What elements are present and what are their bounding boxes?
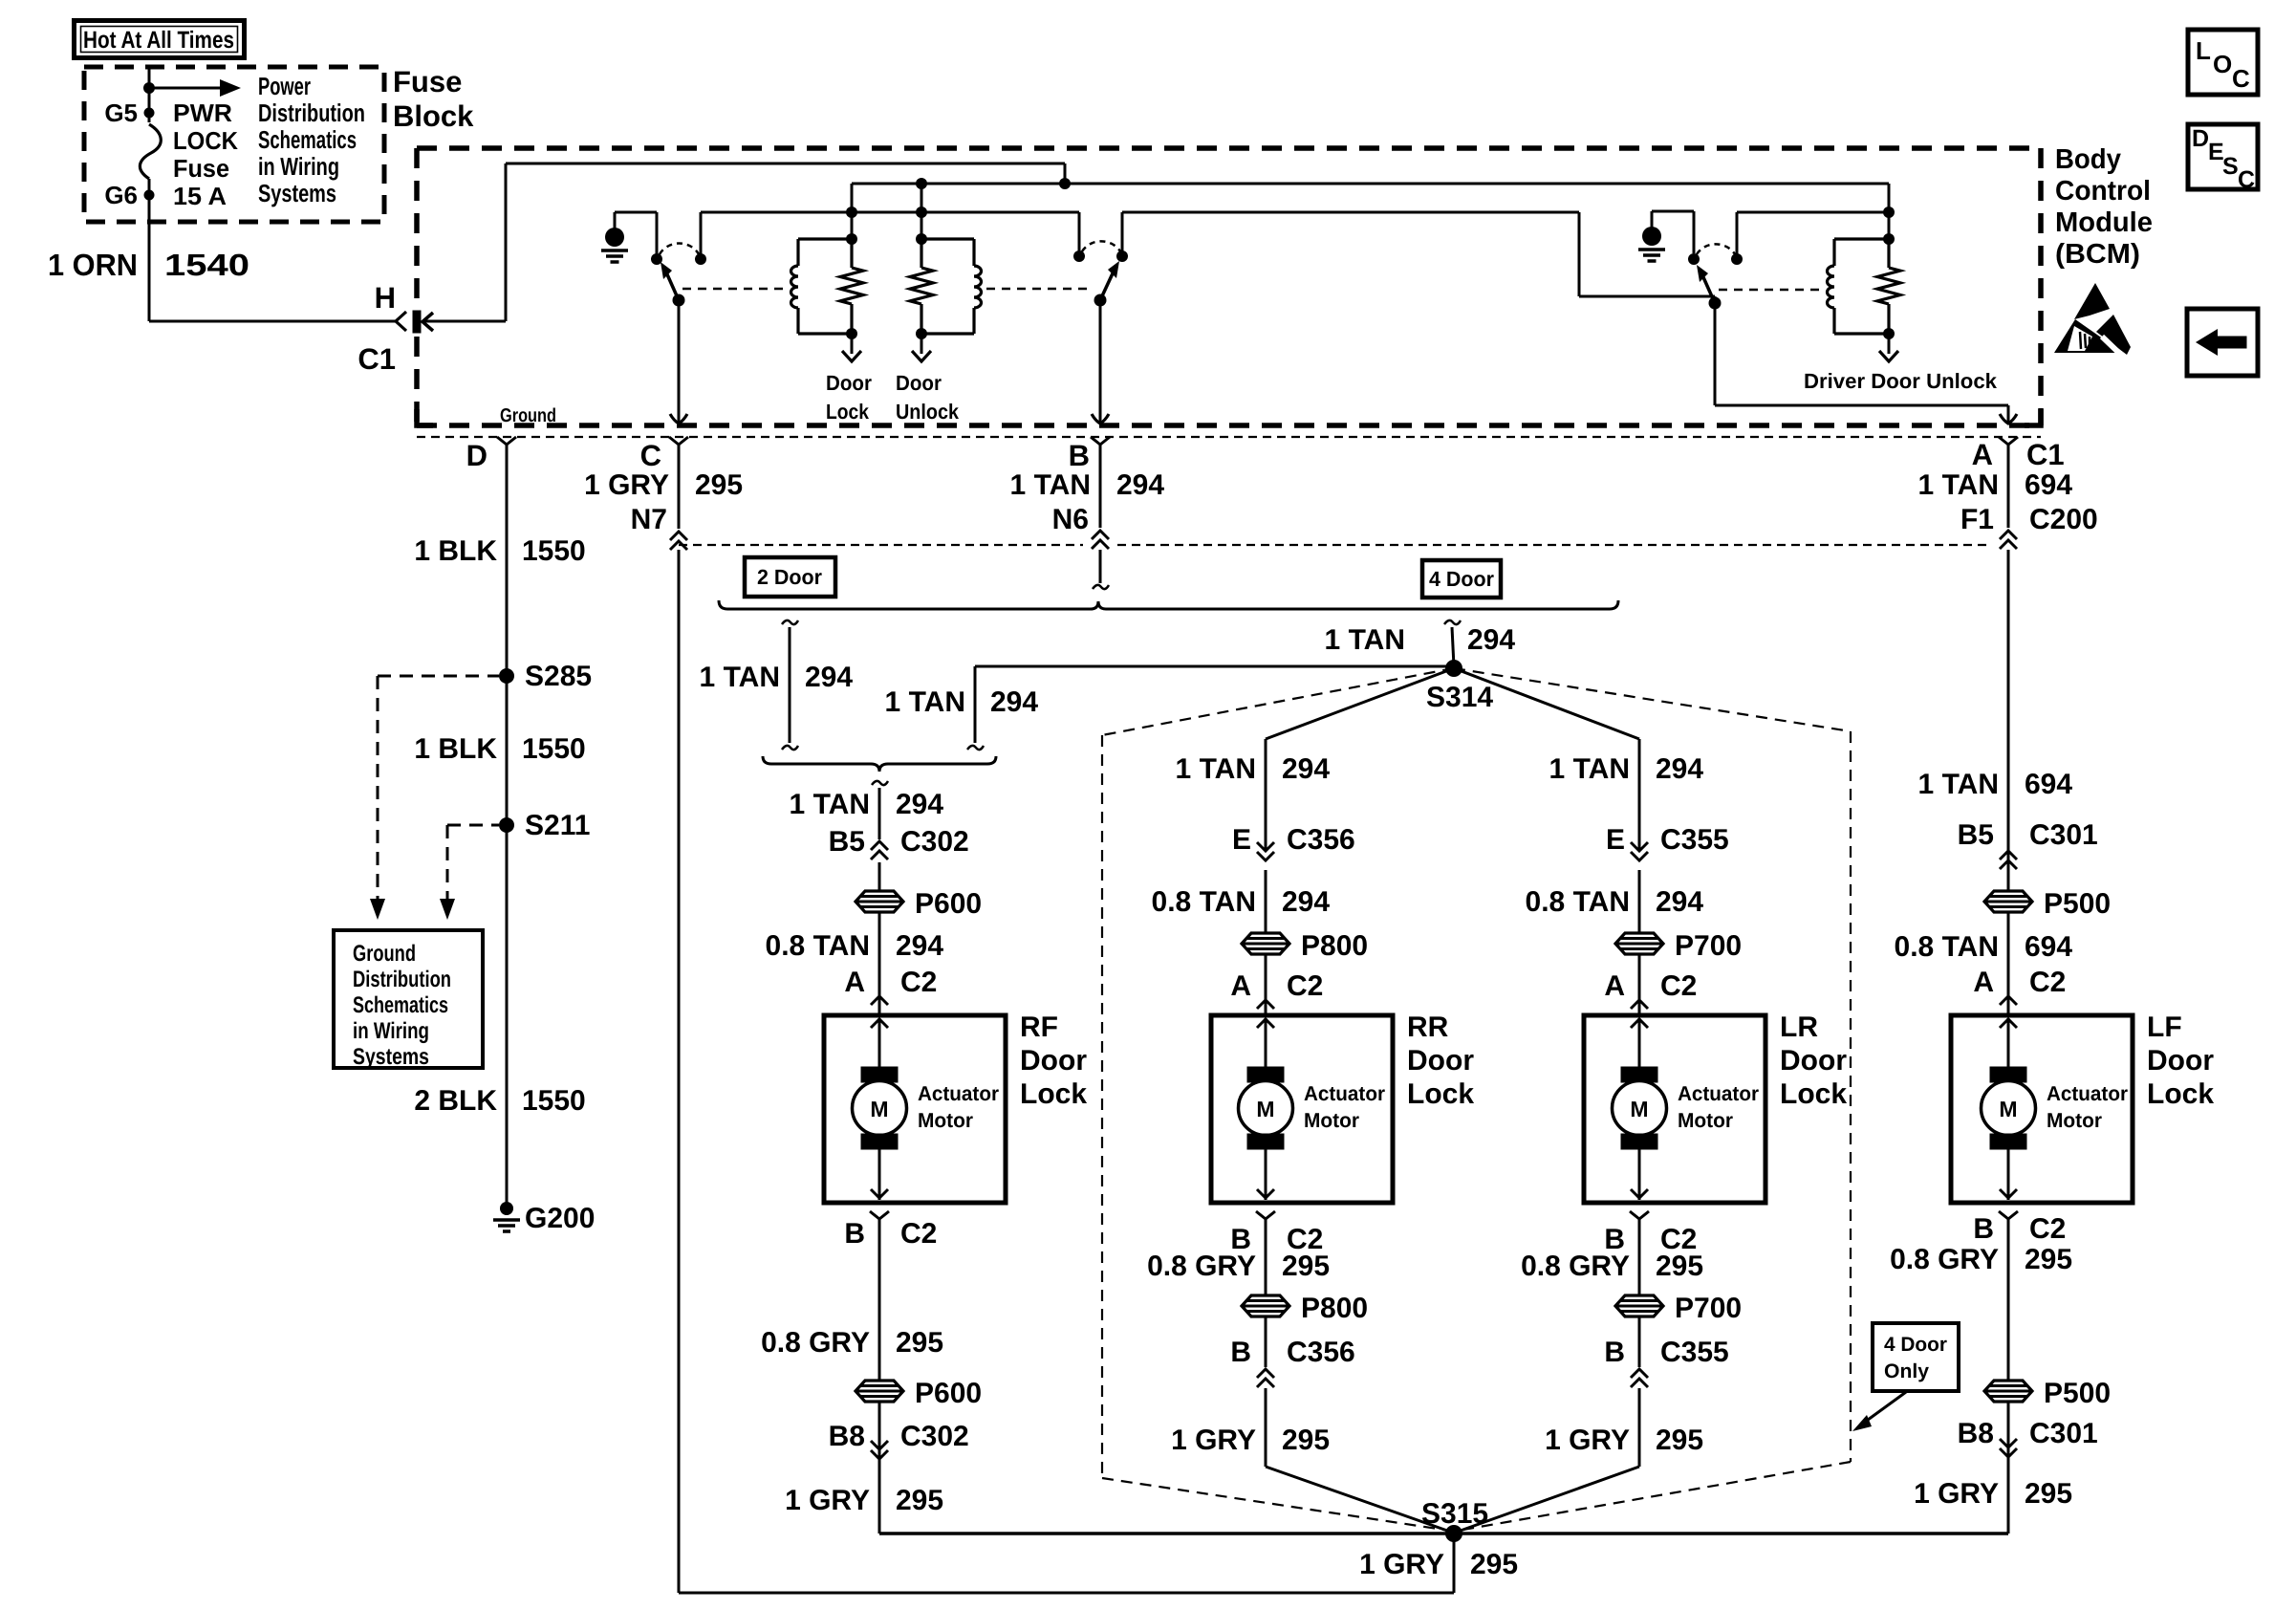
wire D down to G200 <box>506 445 509 1215</box>
svg-text:B5: B5 <box>829 826 865 858</box>
svg-text:295: 295 <box>1470 1549 1518 1580</box>
wire bus 2 <box>852 183 1889 185</box>
arrow into connector B <box>1092 414 1109 424</box>
svg-text:Motor: Motor <box>918 1109 974 1132</box>
connector pin A fork <box>1999 437 2018 445</box>
splice S211 <box>499 817 514 833</box>
wire C down <box>678 445 681 529</box>
svg-text:C: C <box>640 439 661 472</box>
svg-text:Power: Power <box>258 72 311 100</box>
connector C200 chevrons (C) <box>670 532 687 550</box>
svg-text:Actuator: Actuator <box>2047 1082 2129 1105</box>
middle switch contact A <box>1073 250 1085 262</box>
svg-text:H: H <box>375 281 396 315</box>
door lock coil <box>791 266 799 308</box>
svg-text:Lock: Lock <box>1020 1078 1087 1110</box>
svg-text:P500: P500 <box>2044 1378 2111 1409</box>
ground symbol (left, lock/unlock relay) <box>614 212 617 229</box>
svg-text:1 GRY: 1 GRY <box>584 469 669 501</box>
right switch contact B <box>1731 253 1743 265</box>
svg-text:D: D <box>466 439 487 472</box>
svg-text:Ground: Ground <box>353 941 416 967</box>
svg-text:295: 295 <box>2025 1478 2072 1510</box>
svg-text:Actuator: Actuator <box>1678 1082 1760 1105</box>
svg-text:C: C <box>2232 64 2250 93</box>
harness dashed line C1 connector row <box>417 436 2041 438</box>
connector C302 chevrons (RF top) <box>871 841 888 859</box>
svg-text:in Wiring: in Wiring <box>353 1018 429 1044</box>
svg-text:A: A <box>1972 438 1993 471</box>
svg-text:O: O <box>2213 50 2232 78</box>
svg-text:294: 294 <box>1282 886 1330 918</box>
svg-text:295: 295 <box>896 1327 943 1359</box>
motor terminal bottom (LF) <box>1990 1134 2026 1149</box>
svg-text:1 TAN: 1 TAN <box>700 662 780 693</box>
junction wire2 <box>916 178 927 189</box>
svg-text:1 TAN: 1 TAN <box>1918 769 1999 800</box>
svg-text:M: M <box>1999 1097 2017 1121</box>
RF branch wire from brace <box>872 781 888 785</box>
motor terminal top (RF) <box>861 1067 898 1082</box>
svg-text:4 Door: 4 Door <box>1429 567 1494 591</box>
splice S314 <box>1445 660 1462 677</box>
S315 drop to return bus <box>1453 1534 1456 1593</box>
svg-text:C356: C356 <box>1287 824 1355 856</box>
svg-text:Systems: Systems <box>353 1044 429 1070</box>
svg-text:Ground: Ground <box>500 405 556 426</box>
svg-text:B8: B8 <box>829 1421 865 1452</box>
svg-text:694: 694 <box>2025 769 2072 800</box>
connector C2 chevron (RR top) <box>1257 1000 1274 1009</box>
wire A down <box>2007 445 2010 528</box>
arrow into connector A <box>2000 414 2017 424</box>
svg-text:C200: C200 <box>2029 504 2098 535</box>
svg-text:0.8 GRY: 0.8 GRY <box>1521 1251 1630 1282</box>
svg-text:S315: S315 <box>1421 1498 1488 1530</box>
right switch feed from wire2 <box>1888 184 1891 239</box>
svg-text:Distribution: Distribution <box>258 98 365 127</box>
connector C355 chevrons (LR top) <box>1631 842 1648 860</box>
door lock resistor <box>840 268 863 304</box>
svg-text:Only: Only <box>1884 1360 1929 1382</box>
svg-text:G6: G6 <box>104 181 138 209</box>
driver unlock resistor <box>1877 268 1900 304</box>
ESD slash white <box>2102 337 2126 359</box>
junction wire3/unlock feed <box>916 207 927 218</box>
svg-text:C2: C2 <box>1287 970 1323 1002</box>
BCM dashed border right <box>2038 148 2044 425</box>
svg-text:Fuse: Fuse <box>393 65 462 98</box>
wire G6 down to C1 <box>148 179 151 321</box>
svg-text:LF: LF <box>2147 1012 2182 1043</box>
ESD hand cutout <box>2068 326 2092 351</box>
middle switch pivot <box>1094 294 1107 307</box>
svg-text:Actuator: Actuator <box>918 1082 1000 1105</box>
connector C200 chevrons (B) <box>1092 531 1109 549</box>
svg-text:1550: 1550 <box>522 1085 586 1117</box>
fuse block dashed box <box>84 67 384 222</box>
arrow into connector C <box>670 414 687 424</box>
svg-text:1 GRY: 1 GRY <box>1545 1425 1630 1456</box>
left switch wire to contact A <box>615 211 657 214</box>
middle switch arm arrowhead <box>1108 261 1119 278</box>
LOC box <box>2188 30 2258 95</box>
ESD right triangle <box>2096 315 2131 355</box>
grommet P700 (bottom) <box>1615 1295 1663 1316</box>
motor M circle (LF) <box>1982 1081 2036 1136</box>
motor terminal bottom (RF) <box>861 1134 898 1149</box>
svg-text:LR: LR <box>1780 1012 1818 1043</box>
svg-text:Door: Door <box>1020 1045 1087 1077</box>
svg-text:694: 694 <box>2025 931 2072 963</box>
vertical feed door lock resistor <box>851 184 854 239</box>
svg-text:P600: P600 <box>915 1378 982 1409</box>
svg-text:A: A <box>844 967 865 998</box>
svg-text:Motor: Motor <box>2047 1109 2103 1132</box>
grommet P700 (top) <box>1615 933 1663 954</box>
arrow to Power Distribution Schematics <box>149 87 220 90</box>
vertical feed door unlock resistor <box>921 184 923 239</box>
svg-text:B: B <box>1973 1213 1994 1245</box>
wire right pivot to connector A <box>1714 303 1717 405</box>
connector C2 fork (RF bottom) <box>870 1211 889 1219</box>
motor terminal bottom (RR) <box>1247 1134 1284 1149</box>
connector C2 fork (LR bottom) <box>1630 1211 1649 1219</box>
svg-text:P500: P500 <box>2044 888 2111 920</box>
wire pivot to connector C <box>678 300 681 423</box>
svg-text:C301: C301 <box>2029 819 2098 851</box>
svg-text:B8: B8 <box>1958 1418 1994 1449</box>
svg-text:Systems: Systems <box>258 179 336 207</box>
4 Door Only box <box>1873 1323 1959 1391</box>
svg-text:1 GRY: 1 GRY <box>785 1485 870 1516</box>
motor M circle (LR) <box>1613 1081 1667 1136</box>
arrowhead S285 branch <box>370 899 385 920</box>
connector C2 fork (LF bottom) <box>1999 1211 2018 1219</box>
svg-text:15 A: 15 A <box>173 182 227 210</box>
RF door lock actuator <box>824 1015 1006 1203</box>
dashed branch from S211 <box>447 824 499 827</box>
svg-text:C2: C2 <box>900 967 937 998</box>
big brace under 4 door <box>719 600 1618 609</box>
svg-text:M: M <box>870 1097 888 1121</box>
driver unlock coil <box>1828 266 1834 308</box>
back arrow head <box>2196 329 2218 356</box>
small brace under 2-door stubs <box>763 756 996 772</box>
left switch pivot <box>673 294 685 307</box>
1 TAN 294 wire to S314 <box>967 746 984 750</box>
connector pin C fork <box>669 437 688 445</box>
BCM dashed border bottom <box>417 423 2041 428</box>
svg-text:P600: P600 <box>915 888 982 920</box>
dashed 4-door boundary right <box>1454 668 1851 731</box>
svg-text:M: M <box>1256 1097 1274 1121</box>
splice S285 <box>499 668 514 684</box>
svg-text:Distribution: Distribution <box>353 967 451 992</box>
svg-text:C2: C2 <box>1660 970 1697 1002</box>
grommet P800 (top) <box>1242 933 1289 954</box>
svg-text:P700: P700 <box>1675 1293 1742 1324</box>
svg-text:LOCK: LOCK <box>173 126 238 155</box>
svg-text:Lock: Lock <box>826 400 870 424</box>
svg-text:C302: C302 <box>900 1421 969 1452</box>
connector C2 fork (RR bottom) <box>1256 1211 1275 1219</box>
svg-text:(BCM): (BCM) <box>2055 239 2140 270</box>
svg-text:Driver Door Unlock: Driver Door Unlock <box>1804 369 1998 393</box>
svg-text:S285: S285 <box>525 661 592 692</box>
motor terminal top (RR) <box>1247 1067 1284 1082</box>
BCM dashed border top <box>417 145 2041 151</box>
svg-text:RR: RR <box>1407 1012 1449 1043</box>
svg-text:E: E <box>1232 824 1251 856</box>
svg-text:S: S <box>2222 153 2239 180</box>
door lock coil+resistor pair <box>798 237 852 240</box>
svg-text:C1: C1 <box>357 342 396 376</box>
right switch arm arrowhead <box>1697 265 1708 282</box>
svg-text:1 TAN: 1 TAN <box>885 686 965 718</box>
right switch arm <box>1703 277 1715 303</box>
Hot At All Times box <box>75 21 245 58</box>
svg-text:P700: P700 <box>1675 930 1742 962</box>
svg-text:Block: Block <box>393 99 474 133</box>
svg-text:M: M <box>1630 1097 1648 1121</box>
junction wire1/wire2 <box>1059 178 1071 189</box>
LF door lock actuator <box>1951 1015 2133 1203</box>
dashed branch from S285 <box>378 675 499 678</box>
connector C355 chevrons (LR bottom) <box>1631 1369 1648 1387</box>
connector C302 chevrons (RF bottom) <box>871 1441 888 1459</box>
svg-text:S211: S211 <box>525 810 590 841</box>
svg-text:1 BLK: 1 BLK <box>414 535 497 567</box>
middle switch contact B <box>1116 250 1128 262</box>
svg-text:C2: C2 <box>900 1218 937 1250</box>
grommet P500 (bottom) <box>1984 1381 2032 1402</box>
svg-text:C2: C2 <box>2029 967 2066 998</box>
connector C200 chevrons (A) <box>2000 531 2017 549</box>
svg-text:Door: Door <box>2147 1045 2214 1077</box>
svg-text:A: A <box>1604 970 1625 1002</box>
svg-text:295: 295 <box>1282 1425 1330 1456</box>
svg-text:Schematics: Schematics <box>353 992 448 1018</box>
svg-text:C1: C1 <box>2026 438 2065 471</box>
svg-text:Lock: Lock <box>1407 1078 1474 1110</box>
BCM border corner pieces <box>2025 409 2041 425</box>
svg-text:G5: G5 <box>104 98 138 127</box>
connector pin B fork <box>1091 437 1110 445</box>
svg-text:B: B <box>844 1218 865 1250</box>
svg-text:1550: 1550 <box>522 535 586 567</box>
second harness dashed line (C200) <box>679 544 1083 546</box>
svg-text:Lock: Lock <box>2147 1078 2214 1110</box>
svg-text:Hot At All Times: Hot At All Times <box>83 27 234 54</box>
svg-text:2 BLK: 2 BLK <box>414 1085 497 1117</box>
svg-text:A: A <box>1973 967 1994 998</box>
svg-text:1 TAN: 1 TAN <box>1176 753 1256 785</box>
middle switch arm <box>1100 273 1113 300</box>
connector C356 chevrons (RR bottom) <box>1257 1369 1274 1387</box>
grommet P600 (bottom) <box>856 1381 903 1402</box>
svg-text:295: 295 <box>2025 1244 2072 1275</box>
wire bus 3 right segment <box>1122 211 1579 214</box>
svg-text:295: 295 <box>695 469 743 501</box>
junction right contact feed <box>1883 207 1895 218</box>
grommet P800 (bottom) <box>1242 1295 1289 1316</box>
connector C2 chevron (LF top) <box>2000 996 2017 1005</box>
svg-text:294: 294 <box>896 789 943 820</box>
1 TAN 294 tick above S314 <box>1444 620 1461 624</box>
svg-text:Control: Control <box>2055 176 2151 207</box>
svg-text:P800: P800 <box>1301 930 1368 962</box>
fuse PWR LOCK 15A squiggle <box>140 124 161 179</box>
motor terminal bottom (LR) <box>1621 1134 1657 1149</box>
svg-text:B5: B5 <box>1958 819 1994 851</box>
LR branch wire <box>1638 739 1641 849</box>
svg-text:1 TAN: 1 TAN <box>790 789 870 820</box>
RR door lock actuator <box>1211 1015 1393 1203</box>
right switch dashed arc <box>1697 244 1735 254</box>
svg-text:0.8 GRY: 0.8 GRY <box>1147 1251 1256 1282</box>
svg-text:Door: Door <box>826 371 872 395</box>
grommet P500 (top) <box>1984 891 2032 912</box>
driver unlock output arrow <box>1888 334 1891 354</box>
svg-text:1550: 1550 <box>522 733 586 765</box>
svg-text:C355: C355 <box>1660 824 1729 856</box>
svg-text:C301: C301 <box>2029 1418 2098 1449</box>
svg-text:294: 294 <box>1656 886 1703 918</box>
wire1 drop to wire2 junction <box>1064 163 1067 184</box>
wire A (1 TAN 694) down to LF branch <box>2007 550 2010 891</box>
driver door unlock coil+resistor pair <box>1834 237 1889 240</box>
ground G200 <box>500 1202 513 1215</box>
svg-text:1540: 1540 <box>164 248 249 282</box>
BCM dashed border left (gap at C1 connector) <box>414 148 420 308</box>
svg-text:295: 295 <box>1282 1251 1330 1282</box>
svg-text:4 Door: 4 Door <box>1884 1334 1947 1356</box>
svg-text:0.8 TAN: 0.8 TAN <box>766 930 870 962</box>
wire B down <box>1099 445 1102 528</box>
left switch arm <box>667 274 679 300</box>
wire from C1 into BCM interior <box>422 320 506 323</box>
door unlock coil <box>974 266 982 308</box>
svg-text:0.8 TAN: 0.8 TAN <box>1152 886 1256 918</box>
svg-text:295: 295 <box>896 1485 943 1516</box>
solid diagonal S314 to LR <box>1454 668 1639 739</box>
svg-text:1 TAN: 1 TAN <box>1549 753 1630 785</box>
connector C356 chevrons (RR top) <box>1257 842 1274 860</box>
svg-text:294: 294 <box>1282 753 1330 785</box>
ESD bottom triangle <box>2054 319 2123 353</box>
svg-text:L: L <box>2196 36 2211 65</box>
svg-text:Motor: Motor <box>1678 1109 1734 1132</box>
svg-text:294: 294 <box>990 686 1038 718</box>
wire bus 3 left segment <box>701 211 1079 214</box>
wire B continuation squiggle <box>1093 585 1109 589</box>
svg-text:F1: F1 <box>1960 504 1994 535</box>
connector C301 chevrons (LF top) <box>2000 851 2017 869</box>
motor terminal top (LR) <box>1621 1067 1657 1082</box>
bottom bus wire 1 GRY <box>879 1532 2008 1535</box>
svg-text:C355: C355 <box>1660 1337 1729 1368</box>
svg-text:Fuse: Fuse <box>173 154 229 183</box>
svg-text:B: B <box>1230 1337 1251 1368</box>
svg-text:1 TAN: 1 TAN <box>1010 469 1091 501</box>
junction to power distribution arrow <box>143 82 155 94</box>
DESC box <box>2188 124 2258 189</box>
connector pin D fork <box>497 437 516 445</box>
connector C301 chevrons (LF bottom) <box>2000 1439 2017 1457</box>
wire bus 1 (power from C1) <box>506 163 1065 165</box>
svg-text:0.8 TAN: 0.8 TAN <box>1526 886 1630 918</box>
svg-text:Body: Body <box>2055 144 2121 175</box>
terminal G5 <box>144 108 155 119</box>
switch linkage dashed (left) <box>682 288 786 291</box>
middle switch dashed arc <box>1082 241 1120 251</box>
svg-text:P800: P800 <box>1301 1293 1368 1324</box>
splice S315 <box>1445 1525 1462 1542</box>
switch linkage dashed (right) <box>986 288 1093 291</box>
svg-text:C2: C2 <box>2029 1213 2066 1245</box>
connector C2 chevron (LR top) <box>1631 1000 1648 1009</box>
svg-text:A: A <box>1230 970 1251 1002</box>
svg-text:N7: N7 <box>631 504 667 535</box>
left switch arm arrowhead <box>661 262 672 279</box>
grommet P600 (top) <box>856 891 903 912</box>
svg-text:N6: N6 <box>1052 504 1089 535</box>
svg-text:Module: Module <box>2055 207 2153 238</box>
svg-text:694: 694 <box>2025 469 2072 501</box>
wire C (1 GRY 295) to bottom <box>678 550 681 1593</box>
svg-text:RF: RF <box>1020 1012 1058 1043</box>
motor terminal top (LF) <box>1990 1067 2026 1082</box>
connector C2 chevron (RF top) <box>871 996 888 1005</box>
svg-text:C: C <box>2238 166 2255 193</box>
svg-text:295: 295 <box>1656 1251 1703 1282</box>
svg-text:Schematics: Schematics <box>258 125 357 154</box>
wire to BCM connector C1 <box>149 320 396 323</box>
motor M circle (RF) <box>853 1081 907 1136</box>
svg-text:1 ORN: 1 ORN <box>48 248 138 282</box>
svg-text:1 TAN: 1 TAN <box>1918 469 1999 501</box>
RR branch wire <box>1265 739 1267 849</box>
svg-text:Door: Door <box>1407 1045 1474 1077</box>
svg-text:1 GRY: 1 GRY <box>1171 1425 1256 1456</box>
dashed 4-door boundary left <box>1102 668 1454 735</box>
svg-text:1 BLK: 1 BLK <box>414 733 497 765</box>
back arrow box <box>2187 309 2258 376</box>
wire pivot to connector B <box>1099 300 1102 423</box>
right switch linkage dashed <box>1719 289 1824 292</box>
svg-text:0.8 GRY: 0.8 GRY <box>1890 1244 1999 1275</box>
svg-text:1 TAN: 1 TAN <box>1325 624 1405 656</box>
svg-text:D: D <box>2192 125 2209 152</box>
4 Door box <box>1422 560 1501 598</box>
svg-text:Door: Door <box>1780 1045 1847 1077</box>
svg-text:294: 294 <box>1467 624 1515 656</box>
left switch contact A <box>651 253 662 265</box>
1 TAN 294 stub (left of 2-door brace) <box>782 620 798 624</box>
terminal G6 <box>144 190 155 201</box>
RR wire diagonal to S315 <box>1266 1467 1450 1532</box>
wire from hot feed down through fuse <box>148 67 151 122</box>
inline connector H/C1 (female-male) <box>396 312 406 331</box>
4 Door Only arrow <box>1864 1392 1906 1423</box>
svg-text:G200: G200 <box>525 1203 595 1234</box>
svg-text:1 GRY: 1 GRY <box>1914 1478 1999 1510</box>
right switch contact A <box>1688 253 1700 265</box>
svg-text:Door: Door <box>896 371 942 395</box>
svg-text:C356: C356 <box>1287 1337 1355 1368</box>
svg-text:0.8 GRY: 0.8 GRY <box>761 1327 870 1359</box>
